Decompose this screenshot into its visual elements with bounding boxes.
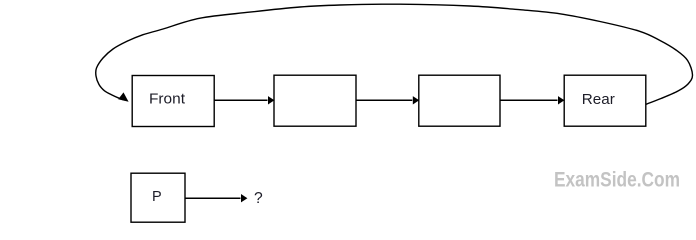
wire: arrow from P to ?	[186, 194, 248, 202]
node 3 (empty box)	[419, 75, 500, 126]
label: question mark	[254, 190, 263, 207]
svg-text:P: P	[152, 189, 162, 205]
wire: arrow node 2 to node 3	[356, 96, 419, 104]
node Front (box)	[132, 76, 214, 127]
svg-text:ExamSide.Com: ExamSide.Com	[554, 169, 680, 192]
node P (pointer box)	[131, 173, 185, 222]
svg-text:Front: Front	[149, 92, 185, 108]
node 2 (empty box)	[274, 75, 356, 126]
node Rear (box)	[564, 75, 646, 126]
wire: arrow Front to node 2	[215, 96, 275, 104]
svg-text:Rear: Rear	[582, 92, 615, 108]
watermark ExamSide.Com	[554, 169, 680, 192]
wire: circular loop arrow from Rear back to Front	[96, 4, 693, 104]
svg-text:?: ?	[254, 190, 263, 207]
wire: arrow node 3 to Rear	[500, 96, 564, 104]
